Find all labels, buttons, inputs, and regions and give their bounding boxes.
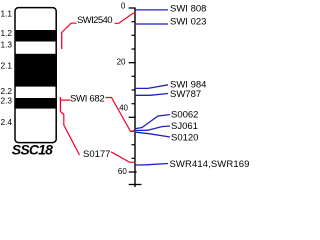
svg-text:SWI 682: SWI 682 xyxy=(70,93,104,104)
red leader SW1682 left xyxy=(60,99,70,101)
blue leader SW1023 xyxy=(136,23,168,25)
svg-text:0: 0 xyxy=(121,1,126,10)
svg-text:1.1: 1.1 xyxy=(0,9,12,19)
svg-text:1.2: 1.2 xyxy=(0,28,12,38)
svg-text:40: 40 xyxy=(119,103,128,112)
minor tick 55 xyxy=(132,157,136,159)
red leader S0177 left xyxy=(60,112,79,156)
core column SSC18 outline xyxy=(15,8,56,143)
blue leader SJ061 xyxy=(136,126,170,131)
svg-text:SJ061: SJ061 xyxy=(171,121,198,132)
svg-text:SWI 808: SWI 808 xyxy=(170,3,206,14)
red leader S0177 right xyxy=(111,152,136,163)
svg-text:2.4: 2.4 xyxy=(0,117,12,127)
major tick 20 xyxy=(129,62,136,64)
red leader SW2540 right xyxy=(115,13,136,23)
black band 2.1-2.2 xyxy=(15,54,57,87)
svg-text:2.1: 2.1 xyxy=(0,60,12,70)
minor tick 10 xyxy=(132,34,136,36)
minor tick 30 xyxy=(132,89,136,91)
minor tick 15 xyxy=(132,48,136,50)
svg-text:SSC18: SSC18 xyxy=(12,141,53,157)
depth axis xyxy=(134,8,136,187)
blue leader SW787 xyxy=(136,94,168,96)
minor tick 35 xyxy=(132,103,136,105)
minor tick 25 xyxy=(132,75,136,77)
major tick 0 xyxy=(129,7,136,9)
svg-text:SW787: SW787 xyxy=(170,89,201,100)
svg-text:SWI2540: SWI2540 xyxy=(77,15,112,26)
svg-text:20: 20 xyxy=(117,58,126,67)
major tick 40 xyxy=(129,116,136,118)
blue leader SW1984 xyxy=(136,85,168,89)
svg-text:S0062: S0062 xyxy=(171,109,198,120)
black band 2.3 xyxy=(15,98,57,109)
red bracket SW2540 xyxy=(61,32,63,49)
red leader SW1682 right xyxy=(106,98,136,132)
svg-text:S0120: S0120 xyxy=(171,132,198,143)
blue leader S0120 xyxy=(136,132,170,137)
red bracket SW1682 xyxy=(59,97,61,112)
minor tick 50 xyxy=(132,144,136,146)
blue leader SW1808 xyxy=(136,9,168,11)
red leader SW2540 left xyxy=(62,23,77,32)
major tick 60 xyxy=(129,171,137,173)
svg-text:SWI 023: SWI 023 xyxy=(170,17,206,28)
minor tick 45 xyxy=(132,130,136,132)
minor tick 5 xyxy=(132,21,136,23)
blue leader SWR414 xyxy=(136,164,168,166)
axis end bar xyxy=(129,184,142,186)
black band 1.2 xyxy=(15,30,57,42)
blue leader S0062 xyxy=(136,115,170,129)
svg-text:SWR414,SWR169: SWR414,SWR169 xyxy=(170,159,250,170)
svg-text:2.3: 2.3 xyxy=(0,96,12,106)
svg-text:S0177: S0177 xyxy=(83,149,110,160)
svg-text:1.3: 1.3 xyxy=(0,40,12,50)
svg-text:60: 60 xyxy=(118,167,127,176)
